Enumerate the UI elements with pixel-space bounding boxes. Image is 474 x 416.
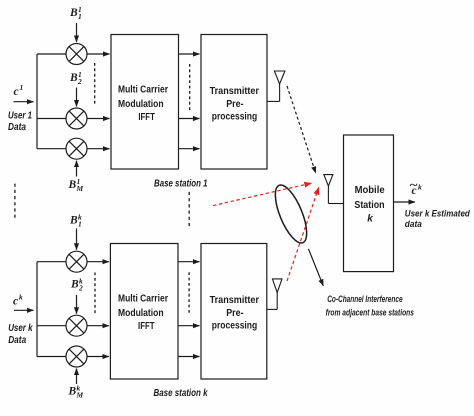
svg-text:Station: Station — [354, 200, 384, 211]
svg-text:Mobile: Mobile — [355, 185, 385, 196]
svg-text:IFFT: IFFT — [138, 112, 155, 123]
svg-text:B: B — [70, 279, 79, 291]
svg-text:Multi Carrier: Multi Carrier — [118, 84, 168, 95]
svg-text:User k: User k — [8, 323, 33, 334]
svg-text:Base station 1: Base station 1 — [154, 178, 208, 189]
svg-text:2: 2 — [78, 284, 83, 293]
svg-text:c: c — [14, 86, 19, 98]
svg-text:k: k — [418, 183, 422, 192]
svg-text:data: data — [405, 219, 422, 229]
svg-text:Data: Data — [8, 335, 26, 346]
svg-text:processing: processing — [212, 111, 257, 122]
svg-text:c: c — [13, 296, 18, 308]
svg-text:~: ~ — [409, 180, 418, 192]
svg-text:IFFT: IFFT — [138, 321, 155, 332]
svg-text:k: k — [367, 213, 373, 224]
svg-text:B: B — [69, 72, 78, 84]
svg-text:1: 1 — [78, 12, 82, 21]
svg-text:Pre-: Pre- — [226, 308, 243, 319]
svg-text:Modulation: Modulation — [118, 99, 164, 110]
svg-text:2: 2 — [77, 77, 82, 86]
svg-text:B: B — [68, 386, 77, 398]
svg-text:Modulation: Modulation — [118, 308, 164, 319]
svg-text:Transmitter: Transmitter — [210, 295, 259, 306]
svg-text:Pre-: Pre- — [226, 99, 243, 110]
svg-text:1: 1 — [78, 220, 82, 229]
svg-text:k: k — [19, 293, 23, 302]
svg-text:Transmitter: Transmitter — [210, 86, 259, 97]
svg-text:Data: Data — [8, 122, 26, 133]
svg-text:B: B — [69, 7, 78, 19]
svg-text:User k Estimated: User k Estimated — [405, 209, 470, 219]
svg-text:Multi Carrier: Multi Carrier — [118, 294, 168, 305]
svg-text:Base station k: Base station k — [154, 388, 208, 399]
svg-text:B: B — [69, 215, 78, 227]
svg-text:Co-Channel Interference: Co-Channel Interference — [327, 294, 402, 304]
svg-text:User 1: User 1 — [8, 110, 32, 121]
svg-text:B: B — [68, 179, 77, 191]
svg-text:from adjacent base stations: from adjacent base stations — [326, 308, 414, 318]
svg-text:processing: processing — [212, 321, 257, 332]
svg-text:M: M — [76, 184, 84, 193]
svg-text:M: M — [76, 391, 84, 400]
svg-text:1: 1 — [20, 83, 24, 92]
